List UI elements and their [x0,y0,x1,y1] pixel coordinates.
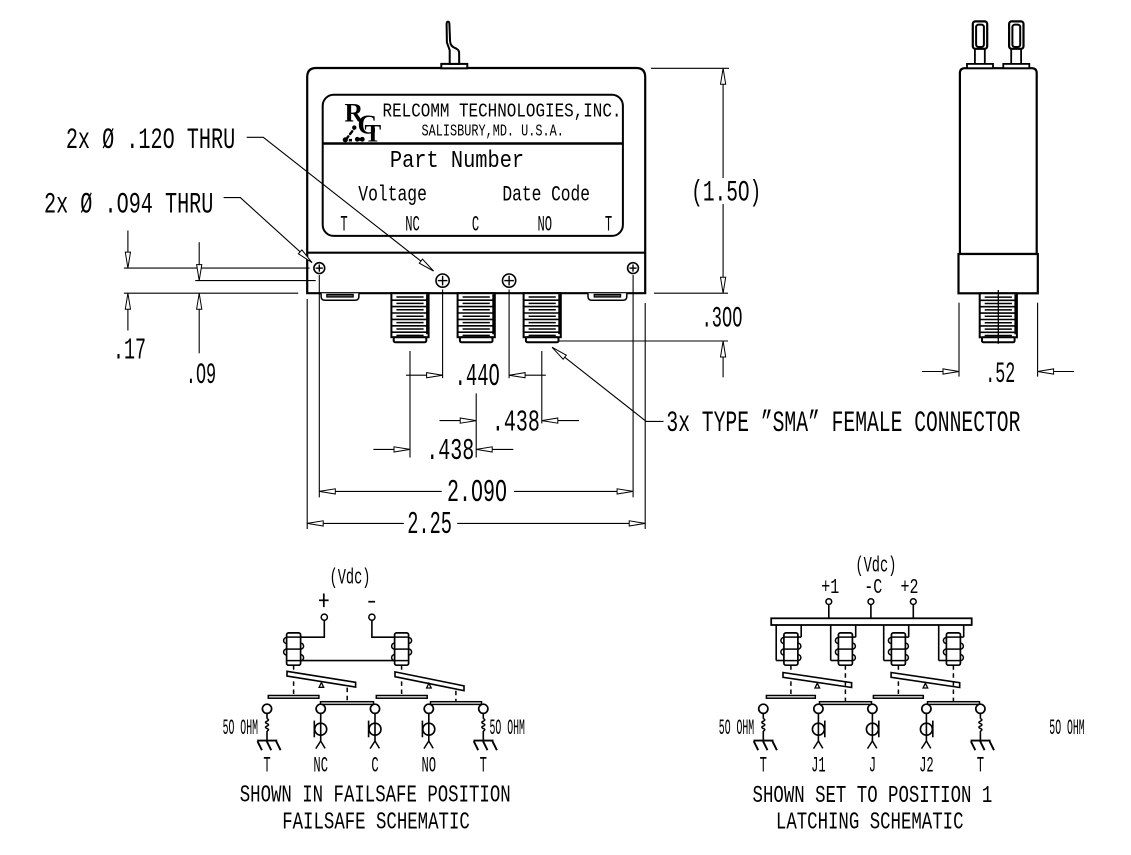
svg-text:.O9: .O9 [186,360,216,393]
failsafe actuator link K1 (dashed) [293,665,295,695]
dim text .300 [702,303,743,336]
svg-text:.44O: .44O [455,358,500,394]
latching open contact plate over T-J1 [766,696,815,699]
latching terminator resistor left 50 OHM [762,713,765,740]
svg-text:J: J [869,754,876,779]
latching -C label [864,577,882,600]
wire -C to bus bar [870,605,872,619]
latching control terminal +1 circle [826,599,832,605]
failsafe ground left [257,741,280,751]
caption SHOWN SET TO POSITION 1 [753,783,993,809]
svg-text:RELCOMM TECHNOLOGIES,INC.: RELCOMM TECHNOLOGIES,INC. [383,101,622,123]
svg-text:SHOWN IN FAILSAFE POSITION: SHOWN IN FAILSAFE POSITION [240,783,511,809]
failsafe closed bridge NC-C [321,702,374,705]
svg-text:NC: NC [405,213,420,238]
dim (1.50) vertical dimension line with arrows [721,68,726,293]
caption FAILSAFE SCHEMATIC [282,810,470,836]
svg-text:T: T [605,213,612,238]
left mounting slot tab [321,293,359,300]
failsafe feedthrough NO [422,713,434,748]
svg-text:Date Code: Date Code [502,182,590,207]
failsafe terminator resistor right 50 OHM [482,713,485,740]
dim .300 extension line at connector tip [558,340,728,342]
latching 50 OHM text left [719,717,754,741]
latching terminal J2 circle [922,704,931,713]
svg-text:.17: .17 [113,334,146,368]
wire plus to coil K1 [301,620,325,637]
latching +1 label [821,577,839,600]
failsafe port labels T NC C NO T [263,754,487,779]
side view: flange block [959,254,1038,293]
label text Date Code [502,182,590,207]
latching feedthrough J1 [812,713,824,748]
svg-text:(Vdc): (Vdc) [330,564,371,591]
svg-text:C: C [472,213,479,238]
svg-text:.3OO: .3OO [702,303,743,336]
side view SMA connector [980,293,1017,342]
latching 50 OHM text right [1049,717,1084,741]
latching terminal J circle [868,704,877,713]
callout leader to screw H2 [247,137,434,271]
latching terminal T2 circle [976,704,985,713]
front view: toggle solder lug on top [441,22,467,69]
label text SALISBURY,MD. U.S.A. [422,123,564,141]
wire minus to coil K2 [372,620,395,637]
latching armature 1 [783,673,852,688]
latching terminal T1 circle [759,704,768,713]
front view: product label plate [323,95,623,236]
svg-text:5O OHM: 5O OHM [719,717,754,741]
latching +2 label [900,577,918,600]
failsafe terminal NC circle [316,704,325,713]
latching coil A [781,633,801,665]
latching coil C [888,633,908,665]
front view: relay body outline [307,68,645,293]
front view: cover/flange split line [307,252,645,254]
svg-text:T: T [760,754,767,779]
latching control terminal +2 circle [910,599,916,605]
failsafe minus terminal circle [369,614,375,620]
failsafe open contact plate over C-NO [376,696,427,699]
failsafe closed bridge NO-T [431,702,482,705]
failsafe terminal NO circle [424,704,433,713]
latching closed bridge J1-J [820,702,872,705]
dim 2.25 extension lines from body edges [307,299,645,529]
callout text 2x dia .094 THRU [44,188,213,222]
svg-text:.438: .438 [492,406,540,440]
mounting hole screw H3 (.120) [503,274,516,287]
side view: relay body [960,68,1037,254]
dim text .17 [113,334,146,368]
svg-text:5O OHM: 5O OHM [1049,717,1084,741]
connector centerline extension lines [410,351,542,458]
latching coil C frame wires [884,625,909,661]
latching coil D frame wires [939,625,964,661]
svg-text:2x Ø .12O THRU: 2x Ø .12O THRU [66,123,235,157]
failsafe feedthrough C [369,713,381,748]
failsafe terminator resistor left 50 OHM [266,713,269,740]
dim .438 (lower) arrows [373,447,513,452]
mounting hole screw H4 (right, .094) [628,263,639,274]
svg-text:+2: +2 [900,577,918,600]
failsafe armature 1 [287,671,356,687]
svg-text:T: T [340,213,347,238]
dim text .438 lower [426,434,474,468]
dim .440 arrows [406,373,546,378]
callout text 3x TYPE SMA FEMALE CONNECTOR [666,406,1020,440]
svg-text:(Vdc): (Vdc) [855,552,896,579]
failsafe 50 OHM text right [490,717,525,741]
right mounting slot tab [588,293,627,300]
caption SHOWN IN FAILSAFE POSITION [240,783,511,809]
dim text 2.25 [407,506,452,543]
latching coil A frame wires [776,625,801,661]
dim .17 arrows [125,231,130,331]
latching actuator link coil C (dashed) [897,665,899,695]
latching terminal J1 circle [814,704,823,713]
dim text .438 middle [492,406,540,440]
dim 2.090 dimension line with arrows [319,489,633,494]
svg-text:FAILSAFE SCHEMATIC: FAILSAFE SCHEMATIC [282,810,470,836]
svg-text:T: T [365,121,382,148]
failsafe 50 OHM text left [223,717,258,741]
svg-text:NC: NC [313,754,328,779]
svg-text:5O OHM: 5O OHM [490,717,525,741]
wire coil K1 to coil K2 bottom [301,660,395,662]
SMA connector front NC (left) [391,293,428,342]
latching closed bridge J2-T [928,702,980,705]
svg-text:SALISBURY,MD. U.S.A.: SALISBURY,MD. U.S.A. [422,123,564,141]
failsafe link armature1 to NC-C bridge (dashed) [346,688,348,702]
mounting hole screw H2 (.120) [436,274,449,287]
svg-text:J1: J1 [811,754,826,779]
failsafe plus terminal circle [321,614,327,620]
latching feedthrough J [866,713,878,748]
callout text 2x dia .120 THRU [66,123,235,157]
dim 2.090 extension lines from outer screws [319,275,633,497]
svg-text:T: T [977,754,984,779]
label text RELCOMM TECHNOLOGIES,INC. [383,101,622,123]
side view SMA centerline [997,290,999,344]
svg-text:.52: .52 [985,359,1015,392]
dim 2.25 dimension line with arrows [307,521,645,526]
dim text .440 [455,358,500,394]
dim .300 arrow [721,341,726,377]
label divider line [323,142,623,145]
svg-text:-C: -C [864,577,882,600]
failsafe coil K1 [284,633,304,665]
dim (1.50) extension lines [651,68,729,293]
failsafe pivot 2 [427,683,432,688]
dim text (1.50) [691,176,761,210]
latching feedthrough J2 [920,713,932,748]
latching port labels T J1 J J2 T [760,754,984,779]
RCT logo [343,99,381,148]
dim .440 extension lines from screws [443,290,510,379]
latching pivot 1 [815,683,820,688]
dim .09 extension line [195,280,315,282]
latching ground left [754,741,777,751]
failsafe terminal C circle [370,704,379,713]
latching open contact plate over J-J2 [873,696,923,699]
label text Part Number [390,147,524,174]
failsafe armature 2 [395,672,464,691]
svg-text:T: T [263,754,270,779]
latching coil B frame wires [831,625,856,661]
svg-text:2x Ø .O94 THRU: 2x Ø .O94 THRU [44,188,213,222]
failsafe coil K2 [392,633,412,665]
latching coil D [943,633,963,665]
side view solder lug 2 [1003,21,1029,68]
latching terminator resistor right 50 OHM [979,713,982,740]
svg-text:Part Number: Part Number [390,147,524,174]
dim .52 extension lines [959,303,1038,377]
failsafe link armature2 to NO-T bridge (dashed) [455,691,457,702]
latching link coil D to J2-T bridge (dashed) [952,665,954,701]
label pin letters T NC C NO T [340,213,612,238]
dim .52 arrows [922,369,1074,374]
failsafe feedthrough NC [314,713,326,748]
svg-text:C: C [371,754,378,779]
callout leader to screw H1 [224,198,312,263]
svg-text:2.O9O: 2.O9O [447,475,507,511]
dim .17 extension lines [124,268,310,293]
failsafe schematic (Vdc) text [330,564,371,591]
SMA connector front C (center) [458,293,495,342]
svg-text:NO: NO [537,213,552,238]
failsafe terminal T right circle [479,704,488,713]
failsafe actuator link K2 (dashed) [401,665,403,695]
dim .438 (middle) arrows [440,418,579,423]
latching ground right [971,741,994,751]
dim text .09 [186,360,216,393]
wire +1 to bus bar [828,605,830,619]
svg-text:LATCHING SCHEMATIC: LATCHING SCHEMATIC [776,810,964,836]
svg-text:.438: .438 [426,434,474,468]
latching actuator link coil A (dashed) [790,665,792,695]
latching pivot 2 [923,683,928,688]
failsafe open contact plate over T-NC [268,696,319,699]
svg-text:5O OHM: 5O OHM [223,717,258,741]
failsafe pivot 1 [319,683,324,688]
svg-text:+1: +1 [821,577,839,600]
svg-text:3x TYPE ”SMA” FEMALE CONNECTOR: 3x TYPE ”SMA” FEMALE CONNECTOR [666,406,1020,440]
latching link coil B to J1-J bridge (dashed) [844,665,846,701]
dim text .52 [985,359,1015,392]
svg-text:T: T [480,754,487,779]
failsafe terminal T left circle [262,704,271,713]
failsafe minus terminal mark [368,601,375,603]
mounting hole screw H1 (left, .094) [314,263,325,274]
latching bus bar [771,618,972,625]
latching coil B [835,633,855,665]
label text Voltage [358,182,427,207]
failsafe ground right [474,741,497,751]
callout leader to SMA connector [552,347,663,421]
caption LATCHING SCHEMATIC [776,810,964,836]
dim .09 arrows [197,242,202,353]
dim text 2.090 [447,475,507,511]
latching armature 2 [891,673,960,688]
svg-text:Voltage: Voltage [358,182,427,207]
side view solder lug 1 [967,21,993,68]
SMA connector front NO (right) [524,293,561,342]
svg-text:2.25: 2.25 [407,506,452,543]
latching control terminal -C circle [868,599,874,605]
svg-text:(1.5O): (1.5O) [691,176,761,210]
wire +2 to bus bar [912,605,914,619]
svg-text:J2: J2 [919,754,934,779]
svg-text:SHOWN SET TO POSITION 1: SHOWN SET TO POSITION 1 [753,783,993,809]
failsafe plus terminal mark [319,594,329,608]
svg-text:NO: NO [421,754,436,779]
latching schematic (Vdc) text [855,552,896,579]
